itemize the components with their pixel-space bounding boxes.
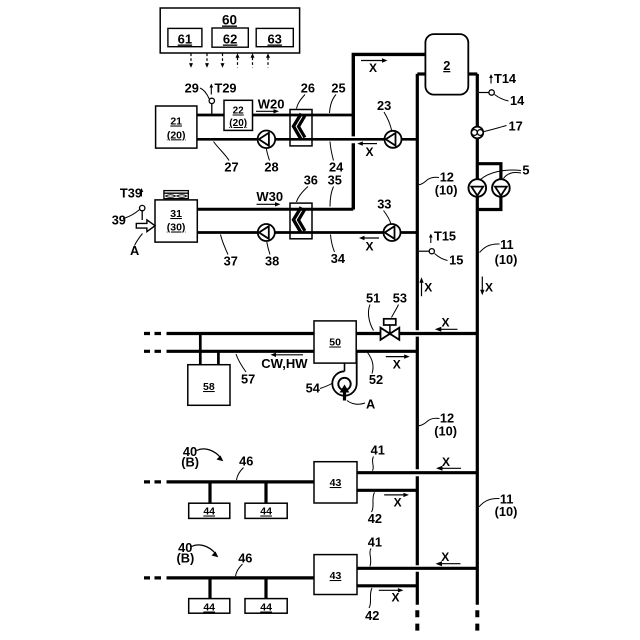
X arrow left (pipe 51) [435,315,458,332]
BRANCH UNIT 2 [144,568,477,598]
valve 17 [471,127,483,139]
svg-text:27: 27 [224,160,238,175]
wire pipe 11 top connection [468,72,477,75]
label 12 (10) upper [419,170,458,198]
wire branch 2 drops [208,579,211,599]
X arrow down pipe 11 [480,277,493,296]
svg-text:21: 21 [170,116,182,128]
label 46 unit 2 [236,550,253,576]
label 29 [185,81,210,100]
X arrow right (pipe 52) [386,354,410,371]
label W20 with arrow [256,97,284,114]
label A (at 54) [347,397,375,412]
svg-text:X: X [393,358,401,372]
box 2 [425,34,468,95]
label 11 (10) upper [480,237,518,267]
box 44 (2a) [189,599,230,614]
svg-text:25: 25 [331,81,345,96]
wire W30 return 34 [197,231,417,234]
svg-text:53: 53 [393,291,407,306]
X arrow left unit 1 [436,455,461,471]
pump symbol 54 [332,351,356,400]
BRANCH UNIT 1 [144,473,477,504]
X arrow right unit 1 [384,493,409,510]
wire W30 supply 35 [197,208,353,211]
box 44 (1b) [245,503,287,518]
X arrow pipe 34 [359,236,379,254]
wire riser heat-source supply to box 2 [353,54,425,209]
W20 LOOP [197,115,417,139]
svg-text:X: X [392,591,400,605]
fan grille on box 31 [164,191,188,199]
svg-text:17: 17 [509,119,523,134]
svg-text:X: X [369,61,377,75]
label 35 [328,172,342,206]
label 52 [368,353,384,388]
svg-text:44: 44 [203,602,215,614]
box 63 [256,28,293,46]
box 61 [168,28,202,46]
svg-text:CW,HW: CW,HW [261,356,308,371]
svg-text:54: 54 [306,381,321,396]
box 44 (2b) [245,599,287,614]
box 58 [188,365,230,406]
svg-text:31: 31 [170,208,182,220]
svg-text:44: 44 [203,506,215,518]
svg-text:57: 57 [241,371,255,386]
valve 53 [381,319,400,340]
label 53 [392,291,408,318]
X arrow pipe 24 [357,141,377,159]
svg-text:38: 38 [265,253,279,268]
svg-text:(B): (B) [181,455,199,470]
label 40 (B) unit 2 [177,540,219,566]
svg-text:39: 39 [112,213,126,228]
label 42 unit 1 [368,492,382,526]
svg-text:14: 14 [510,93,525,108]
pump 23 [385,131,402,148]
wire box 58 connectors [199,334,202,365]
svg-text:50: 50 [329,337,341,349]
svg-text:(30): (30) [167,222,186,234]
svg-text:51: 51 [366,291,380,306]
svg-text:44: 44 [260,602,272,614]
label 12 (10) lower [419,410,457,438]
svg-text:41: 41 [368,534,382,549]
svg-text:(20): (20) [229,118,247,129]
label 14 [495,93,526,108]
svg-text:23: 23 [377,98,391,113]
label 24 [329,142,344,175]
svg-text:58: 58 [203,381,215,393]
heat exchanger 36 [290,203,312,239]
label W30 with arrow [256,189,283,207]
wire branch 2 left pipe 46 [144,576,161,579]
svg-text:63: 63 [267,32,281,47]
svg-text:35: 35 [328,172,342,187]
svg-text:41: 41 [371,443,385,458]
box 62 [212,28,248,47]
svg-text:X: X [442,455,450,469]
heat exchanger 26 [290,110,312,146]
svg-text:A: A [366,397,375,412]
label 42 unit 2 [365,588,379,623]
pipe 11 continuation dashes [475,610,479,630]
svg-text:46: 46 [238,550,252,565]
label 57 [236,354,255,386]
svg-text:26: 26 [301,81,315,96]
svg-text:44: 44 [260,506,272,518]
wire bypass loop of pumps 5 [477,164,501,210]
label 23 [377,98,392,130]
controller box 60 [160,8,299,68]
label 40 (B) unit 1 [181,444,223,470]
svg-text:(20): (20) [167,129,186,141]
label 46 unit 1 [237,454,254,481]
svg-text:62: 62 [223,32,237,47]
box 43 (1) [314,462,357,503]
svg-text:52: 52 [369,372,383,387]
svg-text:15: 15 [449,253,463,268]
svg-text:(B): (B) [177,550,195,565]
svg-text:11: 11 [500,237,514,252]
label 33 [377,196,391,223]
wire branch 2 upper pipe 41 [357,567,477,570]
svg-text:X: X [441,550,449,564]
wire W20 supply 25 [197,114,353,117]
label 17 [484,119,523,134]
svg-text:T15: T15 [434,229,456,244]
svg-text:42: 42 [368,511,382,526]
svg-text:T39: T39 [120,186,142,201]
svg-text:X: X [485,281,493,295]
pipe 12 vertical [416,74,419,605]
svg-text:X: X [442,315,450,329]
unit box 21 (20) [156,106,197,148]
label 5 [481,163,530,180]
label 27 [214,142,239,175]
svg-text:42: 42 [365,608,379,623]
W30 LOOP [197,209,417,232]
label 36 [297,172,318,202]
wire W20 return 24 [197,138,417,141]
label 25 [330,81,346,114]
svg-text:33: 33 [377,196,391,211]
svg-text:W20: W20 [258,97,285,112]
svg-text:(10): (10) [495,252,518,267]
svg-text:43: 43 [330,570,342,582]
svg-text:T14: T14 [494,71,517,86]
label 34 [331,235,346,267]
UNIT 50 SECTION [144,334,477,365]
pump 5b [492,179,510,197]
svg-text:W30: W30 [256,189,283,204]
sensor T14 [479,71,517,95]
svg-text:22: 22 [233,106,245,117]
X arrow left unit 2 [436,550,461,566]
svg-text:X: X [366,240,374,254]
svg-text:36: 36 [304,172,318,187]
pipe 11 vertical [476,74,479,605]
wire branch 1 left pipe 46 [144,480,161,483]
label 51 [366,291,380,331]
label 41 unit 2 [368,534,382,566]
label 11 (10) lower [479,492,517,519]
svg-text:(10): (10) [434,424,457,439]
label 28 [264,149,278,175]
box 50 [314,321,356,363]
sensor T39 [120,186,145,220]
pump 33 [384,224,401,241]
wire 52 lower pipe [144,350,161,353]
wire branch 1 drops [208,483,211,503]
pump 28 [258,131,276,149]
label 54 [306,381,332,396]
box 44 (1a) [189,503,230,518]
svg-text:29: 29 [185,81,199,96]
pipe 12 continuation dashes [415,610,419,630]
svg-text:46: 46 [239,454,253,469]
svg-text:5: 5 [522,163,529,178]
wire branch 2 lower pipe 42 [357,584,417,587]
valve box 22 (20) [224,100,253,130]
label CW,HW with arrow [261,353,308,371]
block arrow A into 31 [136,220,155,232]
svg-text:X: X [394,496,402,510]
label 15 [435,253,464,268]
sensor T15 [419,229,456,254]
pump 38 [258,224,275,241]
svg-text:60: 60 [222,13,237,28]
label 37 [221,235,238,269]
svg-text:X: X [366,145,374,159]
X arrow top riser [361,58,388,75]
box 43 (2) [314,555,357,595]
wire 51 upper pipe [144,332,161,335]
svg-text:34: 34 [331,251,346,266]
pump 5a [469,179,487,197]
svg-text:T29: T29 [215,81,237,96]
wire pipe 12 top connection [417,72,425,75]
svg-text:28: 28 [264,160,278,175]
X arrow up pipe 12 [419,277,432,296]
unit box 31 (30) [155,200,197,242]
sensor T29 [209,81,236,116]
svg-text:(10): (10) [435,183,458,198]
wire branch 1 upper pipe 41 [357,471,477,474]
X arrow right unit 2 [379,588,404,604]
label 26 [297,81,316,109]
svg-text:43: 43 [330,477,342,489]
svg-text:37: 37 [224,253,238,268]
svg-text:2: 2 [443,58,450,73]
dashed signal arrows [191,54,268,68]
label 39 [112,210,140,228]
MAINS [353,54,501,630]
wire branch 1 lower pipe 42 [357,489,417,492]
svg-text:(10): (10) [495,504,518,519]
label 41 unit 1 [371,443,385,471]
svg-text:61: 61 [178,32,192,47]
label A [130,234,143,259]
label 38 [265,242,279,268]
svg-text:X: X [424,281,432,295]
